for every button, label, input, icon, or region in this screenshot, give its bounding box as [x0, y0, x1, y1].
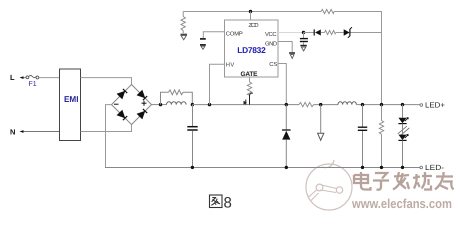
wire N to EMI [24, 131, 60, 133]
wire EMI top output to bridge top [81, 78, 132, 85]
junction C1 ground [191, 166, 194, 169]
wire bridge plus to node [152, 104, 167, 106]
svg-text:www.elecfans.com: www.elecfans.com [351, 196, 452, 211]
bridge polarity marks [114, 101, 147, 106]
ground C3 [300, 46, 306, 51]
svg-text:LED+: LED+ [425, 101, 446, 110]
caption 图8 [210, 195, 232, 212]
bridge diode lower-left [118, 111, 128, 121]
node HV junction [208, 103, 211, 106]
junction R7 ground [380, 166, 383, 169]
HV wire [210, 64, 225, 104]
GATE wire [249, 77, 251, 82]
GND wire [278, 42, 292, 53]
resistor R6 rail [299, 102, 314, 106]
ground return rail [105, 167, 420, 169]
terminal LED+ [420, 101, 446, 110]
svg-text:LD7832: LD7832 [237, 45, 266, 55]
inductor L1 [167, 102, 187, 105]
diode D1 [304, 29, 325, 35]
bridge rectifier diamond [112, 85, 152, 125]
capacitor C1 [187, 105, 197, 168]
svg-text:COMP: COMP [226, 31, 243, 38]
capacitor C2 COMP [200, 39, 206, 45]
watermark text 电子发烧友 (vector strokes) [354, 172, 455, 191]
wire rail B to HV node [192, 104, 299, 106]
svg-text:CS: CS [269, 61, 277, 68]
terminal N [10, 127, 24, 136]
wire fuse to EMI [39, 77, 60, 79]
EMI filter block [60, 69, 81, 141]
wire EMI bottom output to bridge bottom [81, 125, 132, 132]
junction D3 ground [285, 166, 288, 169]
resistor R7 [379, 105, 383, 168]
transistor Q1 [244, 93, 253, 104]
terminal L [10, 73, 24, 82]
wire bridge minus to ground rail [106, 105, 112, 168]
node LED string top [401, 103, 404, 106]
arrow to return [318, 105, 324, 141]
inductor L2 [338, 102, 356, 105]
svg-text:VCC: VCC [265, 31, 277, 38]
capacitor C3 VCC [300, 33, 308, 46]
resistor R5 [325, 30, 337, 34]
bridge diode lower-right [138, 109, 148, 119]
svg-text:ZCD: ZCD [249, 22, 259, 29]
diode D3 freewheeling [282, 105, 291, 168]
node CS junction [285, 103, 288, 106]
svg-text:LED-: LED- [425, 163, 445, 172]
capacitor C4 output [358, 105, 367, 168]
terminal LED- [420, 163, 445, 172]
svg-text:L: L [10, 73, 15, 82]
fuse F1 [24, 75, 39, 88]
node arrow junction [319, 103, 322, 106]
node ZCD junction [249, 10, 252, 13]
VCC wire [278, 32, 304, 34]
svg-text:8: 8 [224, 195, 232, 212]
string continuation marks [398, 126, 410, 135]
COMP wire [203, 32, 224, 38]
bridge diode upper-right [138, 91, 148, 101]
resistor R1 parallel with L1 [161, 90, 193, 105]
node C4 [361, 103, 364, 106]
svg-text:HV: HV [226, 63, 235, 69]
resistor R3 top-left [181, 12, 185, 34]
LED D4 [398, 105, 408, 124]
resistor R2 on top line [321, 9, 334, 13]
CS wire [278, 64, 286, 105]
zener D2 [336, 27, 382, 38]
svg-text:EMI: EMI [64, 94, 79, 104]
node B [191, 103, 194, 106]
wire ZCD [250, 12, 252, 21]
watermark logo circle [306, 160, 352, 210]
top feedback line [183, 12, 381, 105]
junction C4 ground [361, 166, 364, 169]
IC U1 LD7832 [225, 20, 279, 78]
ground R3 [181, 34, 188, 40]
resistor R4 gate [247, 82, 251, 99]
wire rail to LED+ [356, 104, 420, 106]
node R7 top [380, 103, 383, 106]
node VCC [302, 31, 305, 34]
bridge diode upper-left [118, 89, 128, 99]
LED D5 [398, 124, 408, 168]
wire rail [314, 104, 339, 106]
svg-text:GND: GND [265, 41, 277, 48]
ground C2 [201, 46, 205, 49]
node A [159, 103, 162, 106]
junction LED string ground [401, 166, 404, 169]
svg-text:F1: F1 [29, 81, 37, 88]
svg-text:N: N [10, 127, 15, 136]
ground GND pin [289, 53, 295, 58]
